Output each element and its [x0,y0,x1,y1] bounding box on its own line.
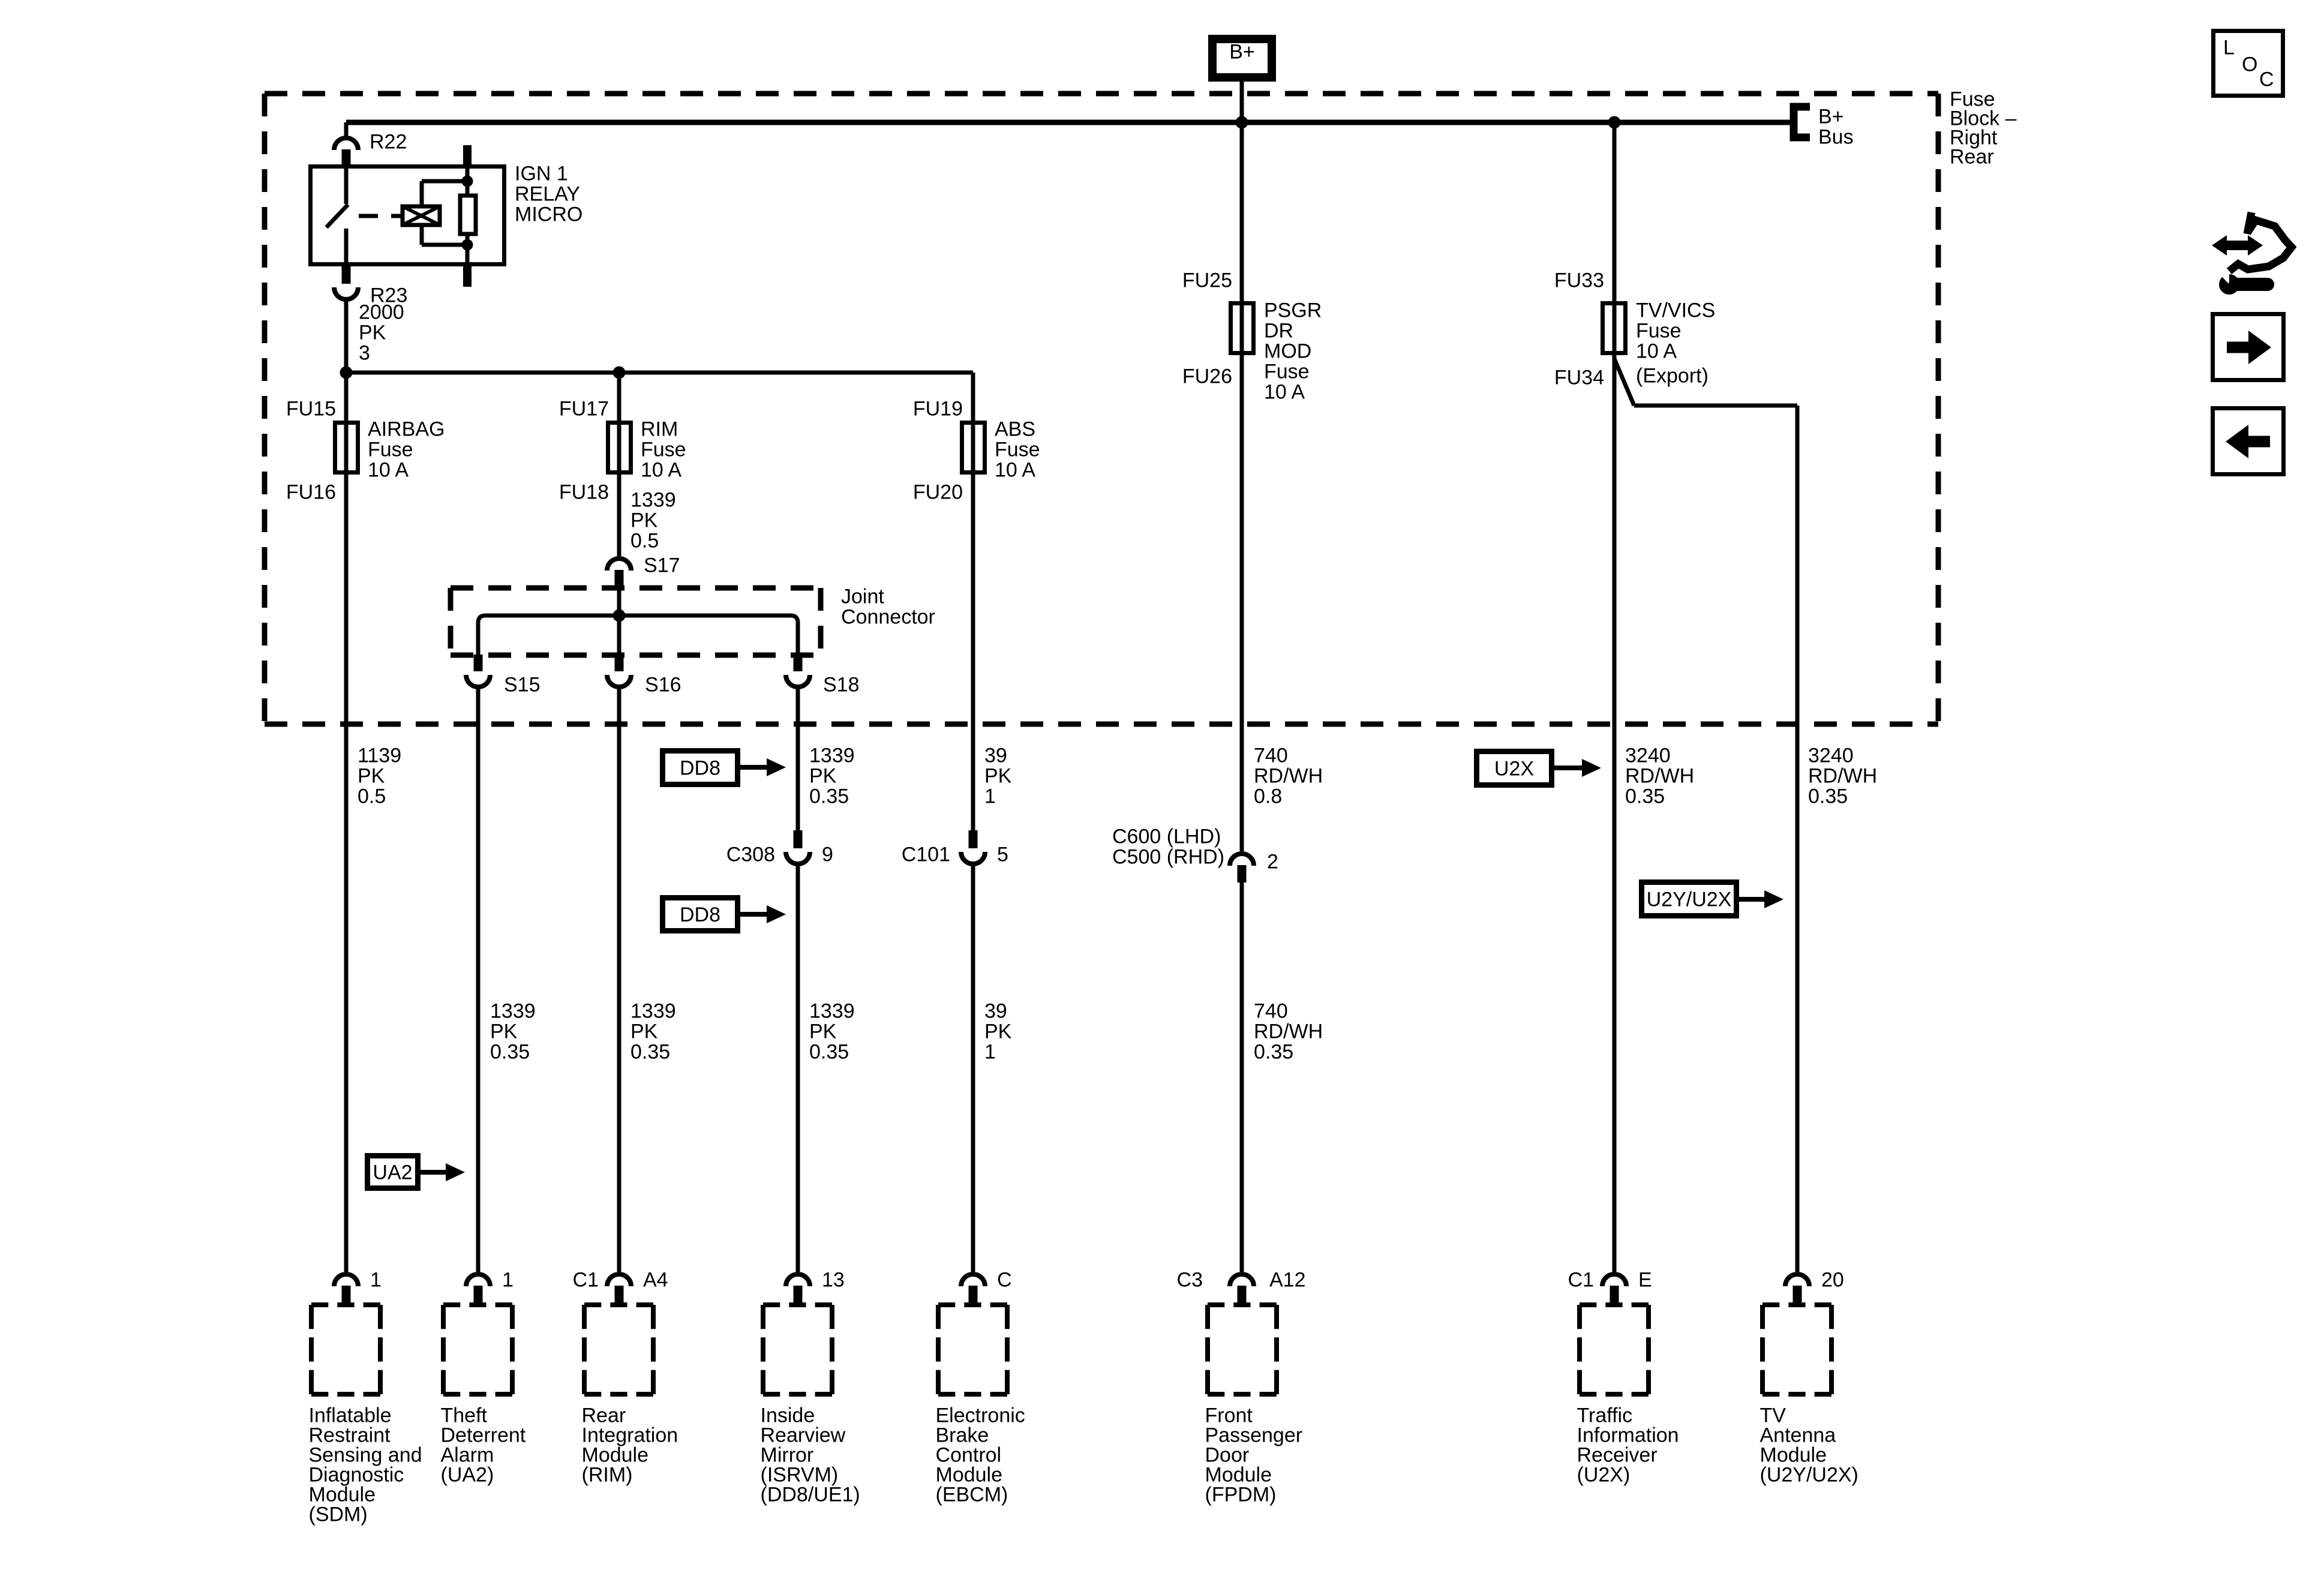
double arrow [2224,241,2251,250]
svg-text:Fuse: Fuse [641,439,686,461]
svg-text:(UA2): (UA2) [441,1464,494,1487]
svg-text:0.5: 0.5 [358,785,386,808]
svg-text:A4: A4 [643,1269,668,1292]
svg-text:20: 20 [1821,1269,1844,1292]
svg-text:B+: B+ [1229,41,1255,64]
svg-text:(RIM): (RIM) [582,1464,633,1487]
svg-text:AIRBAG: AIRBAG [368,418,445,441]
connector R22 [334,138,358,150]
coil parallel loop [420,181,424,206]
relay switch [344,164,349,204]
wire bus to FU33 [1613,122,1617,358]
fuse block - right rear dashed border [265,94,1938,724]
svg-text:9: 9 [822,843,833,866]
svg-text:PK: PK [490,1020,518,1043]
svg-text:10 A: 10 A [368,459,409,482]
joint connector internal wires [617,588,621,660]
connector pin C (Electronic module) [961,1274,985,1286]
svg-text:IGN 1: IGN 1 [515,163,568,185]
svg-text:39: 39 [984,1000,1007,1023]
svg-text:FU25: FU25 [1182,269,1232,292]
svg-text:FU15: FU15 [286,398,336,421]
svg-text:PSGR: PSGR [1264,299,1322,322]
wire ISRVM circuit upper [796,687,800,831]
svg-text:C600 (LHD): C600 (LHD) [1112,825,1221,848]
wire FU18 to S17 [617,475,621,556]
svg-text:E: E [1638,1269,1652,1292]
svg-text:1: 1 [984,1041,996,1064]
wire FU26 to C600 [1240,355,1244,851]
svg-text:(DD8/UE1): (DD8/UE1) [761,1484,860,1506]
joint connector dashed box [451,588,821,655]
wire FU34 down to traffic receiver [1613,355,1617,1272]
module box Electronic [938,1302,1007,1307]
svg-text:FU33: FU33 [1554,269,1604,292]
svg-text:FU34: FU34 [1554,367,1604,389]
connector pin 20 (TV module) [1785,1274,1809,1286]
svg-text:C500 (RHD): C500 (RHD) [1112,846,1224,869]
svg-text:3240: 3240 [1808,745,1854,767]
svg-text:DR: DR [1264,320,1293,343]
svg-text:1339: 1339 [809,1000,855,1023]
svg-text:(EBCM): (EBCM) [936,1484,1008,1506]
svg-text:S16: S16 [645,674,681,697]
flag U2X [1477,752,1552,785]
svg-text:MICRO: MICRO [515,203,582,226]
svg-text:PK: PK [984,1020,1012,1043]
connector pin 1 (Inflatable module) [334,1274,358,1286]
module box Inside [763,1302,832,1307]
svg-text:740: 740 [1254,1000,1288,1023]
svg-text:3: 3 [359,342,370,365]
svg-text:0.35: 0.35 [809,785,849,808]
svg-text:1339: 1339 [630,1000,676,1023]
svg-text:0.35: 0.35 [630,1041,670,1064]
svg-text:3240: 3240 [1625,745,1671,767]
svg-text:U2X: U2X [1494,758,1534,781]
svg-text:1339: 1339 [490,1000,536,1023]
relay box IGN 1 RELAY MICRO [311,167,505,265]
svg-text:PK: PK [630,509,658,532]
relay coil leads [466,164,470,196]
svg-text:S17: S17 [644,554,680,577]
svg-text:S15: S15 [504,674,541,697]
wire B+ to bus [1240,82,1244,122]
svg-text:13: 13 [822,1269,845,1292]
module box Theft [443,1302,512,1307]
svg-text:C: C [997,1269,1012,1292]
svg-text:10 A: 10 A [1636,340,1677,363]
B+ Bus bracket [1794,107,1810,137]
splice S15 [466,675,490,687]
module box Front [1208,1302,1277,1307]
svg-text:Bus: Bus [1818,126,1854,149]
prev-page arrow icon [2213,409,2284,475]
svg-text:DD8: DD8 [680,757,720,780]
svg-text:PK: PK [630,1020,658,1043]
svg-text:2000: 2000 [359,301,404,324]
svg-text:RELAY: RELAY [515,183,580,206]
svg-text:DD8: DD8 [680,903,720,926]
svg-text:FU20: FU20 [913,481,963,504]
svg-text:Fuse: Fuse [368,439,413,461]
svg-text:(Export): (Export) [1636,365,1709,388]
splice S17 [607,559,631,571]
svg-text:R22: R22 [370,131,407,154]
wire EBCM circuit upper [971,475,975,831]
svg-text:Fuse: Fuse [1636,320,1682,343]
svg-text:(U2X): (U2X) [1577,1464,1631,1487]
TV antenna branch wire [1614,359,1634,406]
svg-text:RD/WH: RD/WH [1254,765,1323,788]
svg-text:5: 5 [997,843,1008,866]
B+ power feed box [1212,39,1272,77]
svg-text:0.35: 0.35 [1808,785,1848,808]
wire RIM circuit [617,687,621,1272]
svg-text:10 A: 10 A [995,459,1035,482]
wire bus to R22 [344,122,349,136]
flag U2Y/U2X [1642,882,1737,916]
svg-text:PK: PK [984,765,1012,788]
svg-text:(U2Y/U2X): (U2Y/U2X) [1760,1464,1858,1487]
svg-text:C: C [2259,68,2274,91]
connector pin 13 (Inside module) [786,1274,810,1286]
svg-text:ABS: ABS [995,418,1035,441]
relay resistor [460,196,476,234]
svg-text:1: 1 [370,1269,382,1292]
svg-text:0.5: 0.5 [630,530,659,553]
svg-text:MOD: MOD [1264,340,1311,363]
splice S16 [607,675,631,687]
svg-text:10 A: 10 A [641,459,681,482]
node coil top [462,176,473,187]
svg-text:PK: PK [359,322,386,344]
svg-text:C1: C1 [573,1269,599,1292]
svg-text:B+: B+ [1818,106,1844,128]
connector pin E (Traffic module) [1602,1274,1626,1286]
svg-text:Connector: Connector [841,606,935,629]
svg-text:O: O [2242,53,2257,76]
module box Rear [584,1302,653,1307]
svg-text:1339: 1339 [809,745,855,767]
svg-text:10 A: 10 A [1264,381,1305,404]
svg-text:0.35: 0.35 [809,1041,849,1064]
svg-text:PK: PK [809,1020,837,1043]
module box TV [1762,1302,1831,1307]
svg-text:RD/WH: RD/WH [1625,765,1694,788]
wire C600 to FPDM [1240,882,1244,1272]
svg-text:740: 740 [1254,745,1288,767]
svg-text:0.35: 0.35 [1254,1041,1293,1064]
module box Inflatable [311,1302,380,1307]
flag DD8 upper [663,751,738,785]
node: FU33 branch junction [1608,116,1620,128]
svg-text:RD/WH: RD/WH [1254,1020,1323,1043]
flag UA2 [368,1156,418,1188]
node S17 junction [613,610,625,622]
B+ bus line [346,120,1794,125]
svg-text:2: 2 [1267,851,1278,873]
svg-text:FU26: FU26 [1182,365,1232,388]
node coil bottom [462,239,473,250]
svg-text:L: L [2223,37,2235,59]
wire SDM circuit 1139 PK [344,475,349,1272]
svg-text:PK: PK [809,765,837,788]
vehicle/wrench service icon [2229,212,2292,271]
svg-text:1: 1 [502,1269,514,1292]
svg-text:1339: 1339 [630,489,676,512]
svg-text:RIM: RIM [641,418,678,441]
LOC icon box [2214,31,2283,96]
svg-text:PK: PK [358,765,385,788]
svg-text:1: 1 [984,785,996,808]
svg-text:0.35: 0.35 [1625,785,1665,808]
svg-text:(SDM): (SDM) [309,1503,368,1526]
connector pin 1 (Theft module) [466,1274,490,1286]
svg-text:Joint: Joint [841,586,884,608]
svg-text:TV/VICS: TV/VICS [1636,299,1715,322]
svg-text:FU16: FU16 [286,481,336,504]
node: B+ drop junction [1236,116,1248,128]
svg-text:(FPDM): (FPDM) [1205,1484,1277,1506]
svg-text:S18: S18 [823,674,860,697]
next-page arrow icon [2213,314,2284,380]
svg-text:Fuse: Fuse [995,439,1040,461]
svg-text:FU17: FU17 [559,398,609,421]
svg-text:UA2: UA2 [373,1161,412,1184]
connector C308 pin 9 [786,852,810,864]
wrench glyph [2219,274,2239,295]
connector C101 pin 5 [961,852,985,864]
svg-text:FU18: FU18 [559,481,609,504]
svg-text:C101: C101 [902,843,950,866]
wire ISRVM circuit lower [796,864,800,1272]
svg-text:0.35: 0.35 [490,1041,530,1064]
connector pin A12 (Front module) [1230,1274,1254,1286]
svg-text:U2Y/U2X: U2Y/U2X [1647,888,1732,911]
wire EBCM circuit lower [971,864,975,1272]
svg-text:A12: A12 [1269,1269,1306,1292]
relay coil drive dashes [359,214,401,218]
svg-text:39: 39 [984,745,1007,767]
svg-text:Rear: Rear [1950,146,1994,169]
svg-text:1139: 1139 [358,745,401,767]
connector pin A4 (Rear module) [607,1274,631,1286]
wire B+ to FU25 [1240,122,1244,358]
wire R23 to fuse branch [344,299,349,373]
svg-text:0.8: 0.8 [1254,785,1282,808]
relay coil [403,206,440,225]
svg-text:C3: C3 [1177,1269,1203,1292]
svg-text:FU19: FU19 [913,398,963,421]
connector R23 [334,287,358,299]
svg-text:RD/WH: RD/WH [1808,765,1877,788]
splice S18 [786,675,810,687]
module box Traffic [1580,1302,1649,1307]
fuse branch bus [346,371,973,375]
svg-text:C1: C1 [1568,1269,1594,1292]
svg-text:Fuse: Fuse [1264,361,1310,383]
svg-text:C308: C308 [726,843,775,866]
wire theft deterrent circuit [476,687,481,1272]
flag DD8 lower [663,898,738,931]
